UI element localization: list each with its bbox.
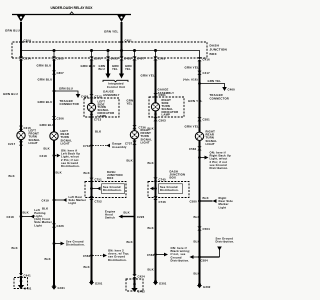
wire BLK column x=54 down [42, 140, 62, 287]
svg-text:BLK: BLK [127, 159, 133, 163]
connector C216 [19, 126, 31, 130]
bus wire inside dash junction box [21, 51, 200, 59]
wire GRN/YEL from right fuse [104, 22, 122, 58]
gauge assembly box right (dashed) [149, 97, 184, 117]
svg-text:ASSEMBLY: ASSEMBLY [103, 93, 120, 97]
node C304 at dashed line left [20, 39, 32, 44]
svg-text:BLK: BLK [42, 207, 48, 211]
svg-text:BLK: BLK [12, 246, 18, 250]
svg-text:LAMP: LAMP [98, 114, 107, 118]
svg-text:C734: C734 [83, 144, 91, 148]
wire BLK column x=199.5 down [194, 141, 200, 288]
svg-text:GRN BLU: GRN BLU [37, 64, 52, 68]
connector C453 [106, 56, 118, 60]
node note right back up light [198, 151, 231, 171]
dash junction box boundary (dashed) [12, 42, 207, 58]
connector C426 [52, 224, 64, 229]
svg-text:BLK: BLK [148, 226, 154, 230]
svg-text:C419: C419 [42, 199, 50, 203]
ground G401 left [18, 277, 32, 291]
connector C457 [132, 56, 144, 60]
svg-text:C582: C582 [189, 147, 197, 151]
svg-text:C305: C305 [57, 57, 65, 61]
svg-text:C418: C418 [40, 154, 48, 158]
lamp left side turn signal indicator [87, 95, 114, 118]
svg-text:G201: G201 [95, 282, 103, 286]
svg-text:GRN BLU: GRN BLU [38, 78, 53, 82]
svg-text:C455: C455 [124, 57, 132, 61]
dash junction box right (dashed) [148, 182, 189, 198]
svg-text:C583: C583 [147, 253, 155, 257]
svg-text:Distribution.: Distribution. [108, 258, 127, 262]
wire arrow GRN/YEL to integrated control unit [112, 60, 124, 79]
svg-text:BLK: BLK [194, 272, 200, 276]
connector C745 [153, 178, 166, 182]
svg-text:C737: C737 [125, 142, 133, 146]
svg-text:Distribution.: Distribution. [216, 240, 235, 244]
wire GRN/BLU column x=54 [37, 60, 55, 132]
connector C424 [132, 274, 145, 278]
svg-text:C417: C417 [203, 71, 211, 75]
svg-text:GRN YEL: GRN YEL [188, 99, 203, 103]
svg-text:YEL: YEL [125, 67, 131, 71]
svg-text:LIGHT: LIGHT [61, 141, 70, 145]
svg-text:GRN BLU: GRN BLU [81, 64, 96, 68]
junction dots on bus [53, 49, 158, 52]
node C734 gauge assembly tap [83, 142, 127, 149]
svg-text:BOX: BOX [170, 176, 177, 180]
wire GRN/BLU from left fuse [5, 22, 21, 58]
svg-text:BLK: BLK [148, 268, 154, 272]
connector C807 [52, 71, 64, 76]
svg-text:LIGHT: LIGHT [206, 142, 215, 146]
node engine hood switch tap [105, 210, 145, 220]
ground box (dashed) at wire 21 [14, 278, 28, 289]
svg-text:C424: C424 [138, 275, 146, 279]
dash junction box label right [170, 170, 186, 180]
svg-text:BLK: BLK [23, 211, 29, 215]
svg-text:BLK: BLK [45, 257, 51, 261]
svg-text:C751: C751 [95, 178, 103, 182]
connector C751 [90, 178, 103, 182]
node see ground distribution tap [53, 240, 85, 247]
under-dash relay box bottom line [12, 12, 131, 15]
svg-text:C453: C453 [111, 57, 119, 61]
wire GRN/YEL column x=199.5 [183, 61, 203, 132]
lamp right side turn signal indicator [151, 94, 178, 117]
svg-text:GRN YEL: GRN YEL [104, 30, 119, 34]
fuse symbol right [117, 15, 125, 22]
svg-text:C214: C214 [24, 57, 32, 61]
wire BLK column x=134.5 down [127, 139, 135, 276]
svg-text:LIGHT: LIGHT [141, 140, 150, 144]
svg-text:G301: G301 [159, 282, 167, 286]
svg-text:BLK: BLK [84, 265, 90, 269]
node C419 tap to left rear side marker light [42, 195, 88, 205]
connector C736 [132, 125, 146, 129]
svg-text:BLK: BLK [194, 215, 200, 219]
svg-text:C217: C217 [8, 142, 16, 146]
lamp left rear turn signal light [50, 129, 72, 145]
node see ground distribution middle [90, 184, 124, 194]
ground G302 [197, 283, 211, 289]
svg-text:Light: Light [34, 223, 42, 227]
svg-text:C563: C563 [159, 119, 167, 123]
svg-text:C460: C460 [228, 88, 236, 92]
connector C737 [125, 141, 137, 146]
wire BLK column x=21 down [9, 140, 22, 275]
node C218 tap to left parking light [7, 208, 53, 228]
svg-text:BLK: BLK [194, 240, 200, 244]
svg-text:CONNECTOR: CONNECTOR [60, 102, 79, 106]
svg-text:C226: C226 [137, 215, 145, 219]
svg-text:BLK: BLK [124, 211, 130, 215]
svg-text:C561: C561 [158, 57, 166, 61]
lamp right rear turn signal light [195, 130, 217, 146]
svg-text:C713: C713 [94, 118, 102, 122]
svg-text:BLK: BLK [95, 130, 101, 134]
dash junction box label middle [107, 170, 123, 180]
connector C417 [197, 71, 210, 75]
svg-text:BLK: BLK [203, 196, 209, 200]
node C580 tap to right rear side marker light [190, 196, 234, 209]
svg-text:C441: C441 [24, 274, 32, 278]
connector C455 [120, 56, 132, 60]
svg-text:GRN BLU: GRN BLU [40, 123, 55, 127]
svg-text:GRN BLU: GRN BLU [59, 87, 73, 91]
lamp right front turn signal light [130, 128, 152, 144]
svg-text:GRN YEL: GRN YEL [185, 125, 200, 129]
connector C752 [90, 196, 103, 204]
ground G402 [131, 278, 145, 294]
svg-text:C746: C746 [159, 200, 167, 204]
svg-text:C581: C581 [203, 118, 211, 122]
svg-text:C426: C426 [57, 224, 65, 228]
note text shared black wiring [171, 246, 191, 262]
svg-text:GRN BLU: GRN BLU [3, 92, 18, 96]
connector C441 [19, 273, 31, 277]
svg-text:G401: G401 [24, 287, 32, 291]
svg-text:C451: C451 [125, 39, 133, 43]
svg-text:BLK: BLK [56, 171, 62, 175]
svg-text:ASSEMBLY: ASSEMBLY [158, 91, 175, 95]
wire GRN/YEL column x=155.5 [141, 60, 156, 94]
svg-text:BOX: BOX [107, 176, 114, 180]
svg-text:GRN YEL: GRN YEL [141, 74, 156, 78]
svg-text:BOX: BOX [210, 52, 218, 56]
svg-text:GRN BLU: GRN BLU [5, 29, 20, 33]
svg-text:BLU: BLU [99, 67, 105, 71]
connector C561 [153, 56, 165, 60]
wire BLK column x=91.5 down [84, 111, 102, 283]
node see ground distribution right [150, 184, 183, 194]
svg-text:G302: G302 [203, 285, 211, 289]
svg-text:Distribution.: Distribution. [160, 188, 179, 192]
connector C712 [90, 94, 103, 98]
gauge assembly label left [103, 90, 120, 97]
ground G401 second [51, 285, 65, 291]
svg-text:Light: Light [219, 205, 227, 209]
lamp left front turn signal light [17, 129, 40, 145]
svg-text:BLK: BLK [44, 147, 50, 151]
svg-text:C457: C457 [137, 57, 145, 61]
wire GRN/BLU column x=91.5 [81, 60, 96, 95]
svg-text:LIGHT: LIGHT [29, 141, 38, 145]
svg-text:C752: C752 [95, 200, 103, 204]
bus drop stubs [54, 51, 156, 58]
svg-text:G402: G402 [138, 290, 146, 294]
node C562 note 2 doors [83, 249, 129, 262]
connector C563 [153, 117, 166, 122]
connector C582 [189, 146, 202, 151]
svg-text:Distribution.: Distribution. [210, 166, 229, 170]
svg-text:C584: C584 [201, 259, 209, 263]
connector C575 [90, 56, 102, 60]
svg-text:Switch: Switch [105, 216, 115, 220]
svg-text:C580: C580 [190, 200, 198, 204]
connector C214 [19, 56, 31, 60]
gauge assembly box left (dashed) [84, 98, 119, 117]
node C584 tap [190, 255, 220, 262]
node C418 note back-up light [40, 149, 81, 169]
svg-text:UNDER-DASH RELAY BOX: UNDER-DASH RELAY BOX [51, 6, 94, 10]
connector C746 [153, 196, 166, 204]
svg-text:C306: C306 [57, 117, 65, 121]
svg-text:G401: G401 [58, 286, 66, 290]
svg-text:C807: C807 [57, 71, 65, 75]
svg-text:BLK: BLK [127, 240, 133, 244]
svg-text:C745: C745 [159, 178, 167, 182]
wire GRN/YEL column x=134.5 [125, 60, 135, 131]
svg-text:C304: C304 [24, 39, 32, 43]
connector C217 [8, 142, 23, 147]
svg-text:BLK: BLK [84, 171, 90, 175]
wire GRN/BLU column x=21 to left front turn signal light [3, 60, 21, 131]
gauge assembly label right [158, 88, 175, 95]
node tap to trailer connector left [38, 78, 89, 107]
svg-text:BLK: BLK [148, 127, 154, 131]
svg-text:C564: C564 [203, 227, 211, 231]
node C451 at dashed line right [120, 39, 132, 44]
svg-text:C416: C416 [203, 58, 211, 62]
connector C581 [197, 117, 210, 121]
svg-text:Distribution.: Distribution. [103, 188, 122, 192]
connector C564 [197, 227, 210, 232]
svg-text:Control Unit: Control Unit [107, 85, 125, 89]
node tap to trailer connector right [198, 79, 235, 100]
node C583 note trailer [147, 253, 168, 257]
svg-text:GRN BLU: GRN BLU [38, 100, 53, 104]
connector C306 [40, 116, 65, 127]
svg-text:YEL: YEL [127, 102, 133, 106]
svg-text:BLK: BLK [148, 161, 154, 165]
connector C416 [197, 57, 210, 61]
svg-text:Light: Light [69, 201, 77, 205]
svg-text:GRN YEL: GRN YEL [208, 79, 222, 83]
svg-text:CONNECTOR: CONNECTOR [210, 96, 229, 100]
connector C305 [52, 56, 64, 60]
svg-text:C562: C562 [83, 254, 91, 258]
fuse symbol left (turn signal fuse) [17, 15, 25, 22]
svg-text:YEL: YEL [112, 67, 118, 71]
svg-text:LAMP: LAMP [162, 113, 171, 117]
dash junction box label [210, 43, 228, 55]
svg-text:Distribution.: Distribution. [66, 243, 85, 247]
svg-text:GRN YEL: GRN YEL [185, 66, 200, 70]
ground box (dashed) at wire 134.5 [126, 279, 143, 291]
svg-text:BLK: BLK [9, 174, 15, 178]
under-dash relay box label [51, 6, 94, 10]
ground G201 [89, 280, 103, 286]
svg-text:C575: C575 [94, 57, 102, 61]
wire BLK column x=155.5 down [148, 111, 156, 283]
wire arrow GRN/BLU to integrated control unit [99, 60, 111, 79]
svg-text:Distribution.: Distribution. [171, 258, 190, 262]
integrated control unit bracket [103, 80, 128, 89]
note see ground distribution far right [216, 237, 235, 258]
svg-text:Distribution.: Distribution. [61, 164, 80, 168]
svg-text:C218: C218 [7, 215, 15, 219]
svg-text:(4dr: A16): (4dr: A16) [183, 78, 198, 82]
dash junction box middle (dashed) [85, 182, 126, 198]
connector C561b [153, 93, 166, 97]
ground G301 [153, 280, 167, 286]
